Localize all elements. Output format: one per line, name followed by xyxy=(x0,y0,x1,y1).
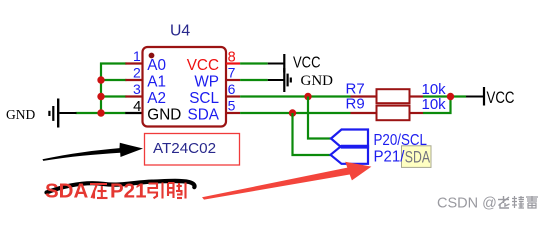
svg-text:A2: A2 xyxy=(147,90,166,107)
wire R7 right to VCC xyxy=(423,95,466,97)
svg-text:CSDN @: CSDN @ xyxy=(437,196,497,212)
svg-text:10k: 10k xyxy=(422,96,447,113)
annotation red text P21 xyxy=(110,180,146,203)
svg-text:1: 1 xyxy=(133,48,141,64)
svg-text:A1: A1 xyxy=(147,74,166,91)
pin-1 indicator dot xyxy=(149,53,155,59)
svg-text:VCC: VCC xyxy=(187,57,219,74)
watermark CSDN xyxy=(437,196,497,212)
wire SDA net (pin5 to R9) xyxy=(240,112,350,114)
pin number 3 xyxy=(133,81,141,97)
pin number 1 xyxy=(133,48,141,64)
pin number 7 xyxy=(228,65,236,81)
label GND (pin 7) xyxy=(301,73,334,89)
net flag P21 xyxy=(331,146,369,164)
resistor R7 lead left xyxy=(351,95,378,97)
svg-text:GND: GND xyxy=(147,106,181,123)
svg-text:SCL: SCL xyxy=(189,90,219,107)
pin stub 2 xyxy=(125,79,142,81)
label P21/ xyxy=(374,148,406,165)
wire riser to P21 flag xyxy=(293,113,332,155)
pin name VCC (red) xyxy=(187,57,219,74)
component label box AT24C02 xyxy=(145,134,240,166)
IC U4 body xyxy=(143,47,227,127)
pin number 6 xyxy=(228,81,236,97)
wire R9 right riser xyxy=(423,97,451,114)
value 10k (R9) xyxy=(422,96,447,113)
pin stub 8 (red) xyxy=(226,62,240,64)
pin name A1 xyxy=(147,74,166,91)
svg-text:A0: A0 xyxy=(147,57,166,74)
watermark glyph MU xyxy=(512,196,524,208)
pin number 8 (red) xyxy=(228,49,236,65)
wire pin8 to VCC xyxy=(240,62,268,64)
watermark glyph LAO xyxy=(498,196,510,208)
label AT24C02 xyxy=(153,140,216,157)
pin name SDA xyxy=(188,106,220,123)
svg-text:SDA: SDA xyxy=(188,106,220,123)
svg-text:SDA: SDA xyxy=(45,180,88,203)
svg-text:GND: GND xyxy=(301,73,334,89)
svg-text:GND: GND xyxy=(6,107,35,122)
annotation black arrow xyxy=(43,143,144,161)
resistor R9 body xyxy=(377,106,410,121)
annotation red text SDA xyxy=(45,180,88,203)
junction dot SDA (292.5,113) xyxy=(289,109,296,116)
annotation red glyph ZAI xyxy=(90,184,108,199)
pin stub 7 xyxy=(226,79,240,81)
wire pin4 GND horizontal xyxy=(76,112,126,114)
svg-text:3: 3 xyxy=(133,81,141,97)
resistor R9 lead right xyxy=(410,112,424,114)
pin number 4 xyxy=(133,99,141,115)
svg-text:7: 7 xyxy=(228,65,236,81)
label R9 xyxy=(346,96,365,113)
pin stub 3 xyxy=(125,95,142,97)
resistor R7 body xyxy=(377,89,410,103)
pin name GND xyxy=(147,106,181,123)
pin name SCL xyxy=(189,90,219,107)
junction dot (101,96.5) xyxy=(97,93,104,100)
pin stub 1 xyxy=(125,62,142,64)
pin number 5 xyxy=(228,98,236,114)
net flag P20 xyxy=(331,130,368,148)
svg-text:4: 4 xyxy=(133,99,141,115)
junction dot (101,80) xyxy=(97,76,104,83)
wire riser to P20 flag xyxy=(308,97,332,139)
svg-text:P21: P21 xyxy=(110,180,146,203)
pin stub 4 (black) xyxy=(125,112,142,114)
junction dot (450.5,96.5) xyxy=(447,93,454,100)
annotation red glyph JIAO xyxy=(168,183,186,199)
pin name WP xyxy=(194,74,219,91)
resistor R9 lead left xyxy=(351,112,378,114)
watermark glyph LEI xyxy=(526,196,538,208)
svg-text:5: 5 xyxy=(228,98,236,114)
wire net A0: vertical bus left xyxy=(100,63,102,113)
highlight box SDA xyxy=(402,146,432,168)
svg-text:R9: R9 xyxy=(346,96,365,113)
pin number 2 xyxy=(133,65,141,81)
wire pin1 A0 horizontal xyxy=(100,62,126,64)
svg-text:AT24C02: AT24C02 xyxy=(153,140,216,157)
junction dot SCL (308,96.5) xyxy=(304,93,311,100)
wire pin7 to GND xyxy=(240,79,268,81)
value 10k (R7) xyxy=(422,81,447,98)
svg-text:WP: WP xyxy=(194,74,219,91)
svg-text:2: 2 xyxy=(133,65,141,81)
svg-text:SDA: SDA xyxy=(405,147,431,166)
resistor R7 lead right xyxy=(410,95,424,97)
wire pin3 A2 horizontal xyxy=(101,95,126,97)
wire pin2 A1 horizontal xyxy=(101,79,126,81)
svg-text:U4: U4 xyxy=(170,22,190,39)
pin stub 6 xyxy=(226,95,240,97)
label R7 xyxy=(346,80,365,97)
wire SCL net (pin6 to R7) xyxy=(240,95,350,97)
ground symbol left xyxy=(49,99,76,128)
power VCC symbol (right) xyxy=(466,87,484,106)
svg-text:P21/: P21/ xyxy=(374,148,406,165)
refdes U4 xyxy=(170,22,190,39)
annotation red arrow to P21/SDA xyxy=(202,162,371,200)
label VCC (pin 8) xyxy=(293,54,321,71)
power VCC symbol (pin 8) xyxy=(268,54,285,73)
highlighted text SDA xyxy=(405,147,431,166)
label VCC (right) xyxy=(487,89,515,107)
junction dot (101,113) xyxy=(97,109,104,116)
pin name A2 xyxy=(147,90,166,107)
ground symbol (pin 7) xyxy=(268,68,291,92)
annotation red glyph YIN xyxy=(149,183,163,199)
pin stub 5 xyxy=(226,112,240,114)
annotation black squiggle strikethrough xyxy=(47,181,195,193)
label GND left xyxy=(6,107,35,122)
svg-text:VCC: VCC xyxy=(293,54,321,71)
pin name A0 xyxy=(147,57,166,74)
label P20/SCL xyxy=(374,132,428,149)
svg-text:VCC: VCC xyxy=(487,89,515,107)
svg-text:6: 6 xyxy=(228,81,236,97)
